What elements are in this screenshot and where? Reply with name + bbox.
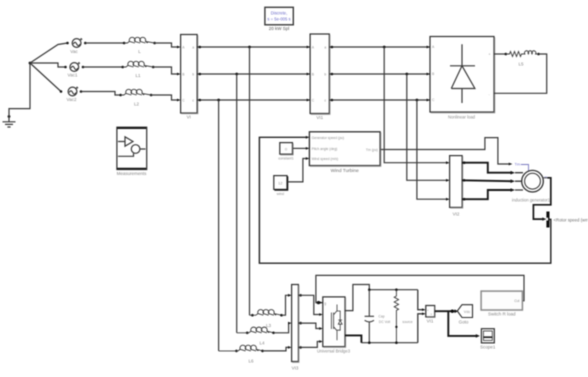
wire VM to Goto (bold) (435, 310, 455, 312)
wire L6 to VI3 c (263, 347, 289, 351)
node A tap (248, 46, 251, 49)
wire Vac1 to L1 (83, 66, 123, 68)
svg-text:constant1: constant1 (278, 157, 294, 161)
wire L2 to VI port C (151, 95, 177, 100)
svg-text:source: source (402, 320, 412, 324)
svg-text:c: c (324, 99, 326, 103)
wire node to Vac1 (30, 63, 66, 67)
svg-text:+: + (489, 53, 491, 57)
svg-text:Cut: Cut (514, 299, 519, 303)
svg-text:induction generator1: induction generator1 (512, 197, 551, 202)
goto tag Vdc (457, 305, 472, 325)
powergui block (265, 7, 293, 31)
svg-text:L2: L2 (134, 102, 140, 107)
node C tap right (416, 99, 419, 102)
measurement subsystem block (117, 127, 148, 176)
svg-text:L1: L1 (135, 73, 141, 78)
machine Tm stub (521, 165, 529, 171)
inductor L4 (237, 327, 275, 345)
wire RL loop back to rectifier (494, 54, 547, 93)
tap B down-right to VI2 (407, 74, 446, 180)
gate wire net (316, 275, 524, 302)
svg-text:b: b (192, 73, 194, 77)
wire Vac2 to L2 (81, 92, 121, 96)
wire ground to node (9, 63, 30, 117)
svg-text:<Rotor speed (wm)>: <Rotor speed (wm)> (554, 217, 588, 222)
capacitor C (365, 290, 391, 343)
svg-text:VI: VI (187, 115, 191, 120)
svg-text:-: - (489, 92, 490, 96)
svg-text:+: + (427, 308, 429, 312)
bus C: VI to VI1 (197, 99, 310, 101)
svg-text:Tm: Tm (515, 163, 520, 167)
svg-text:b: b (324, 73, 326, 77)
svg-text:g: g (324, 301, 326, 305)
wire node to Vac2 (30, 63, 61, 92)
resistor branch (394, 290, 412, 343)
node B tap right (405, 73, 408, 76)
bus A: VI to VI1 (197, 46, 310, 48)
svg-text:L3: L3 (266, 323, 272, 328)
svg-text:Vac: Vac (70, 49, 78, 54)
svg-text:L5: L5 (518, 62, 524, 67)
tap A down-right to VI2 (384, 47, 446, 163)
svg-text:Vac2: Vac2 (67, 97, 77, 102)
block VI3 (292, 285, 299, 371)
wire constant2 to turbine wind speed (288, 159, 306, 182)
right leg to VM (418, 290, 423, 343)
svg-text:Pitch angle (deg): Pitch angle (deg) (312, 147, 338, 151)
wire node to Vac (30, 43, 68, 63)
scope1 block (480, 329, 496, 350)
svg-text:Measurements: Measurements (117, 171, 148, 176)
block VI1 (three-phase VI measurement) (310, 34, 330, 120)
wire turbine Tm to machine (381, 138, 509, 164)
tap C down-right to VI2 (417, 100, 446, 199)
svg-text:a: a (192, 46, 194, 50)
wire L4 to VI3 b (274, 323, 289, 333)
switch load subsystem (gray) (481, 291, 522, 316)
wire to scope (bold) (448, 311, 476, 336)
IGBT symbol (331, 305, 342, 341)
svg-text:Wind Turbine: Wind Turbine (331, 168, 360, 174)
svg-text:VI3: VI3 (292, 366, 299, 371)
tap A down-left to L3 (249, 47, 251, 315)
constant2 block (12, wind speed) (274, 176, 288, 196)
svg-text:Vdc: Vdc (464, 310, 471, 314)
arrows into VI1 (307, 46, 311, 102)
voltage measurement block VI1 (426, 306, 435, 324)
svg-text:Cap: Cap (378, 315, 384, 319)
node A tap right (383, 46, 386, 49)
AC source Vac2 (60, 87, 83, 102)
DC- wire bridge to rail (bold) (345, 335, 361, 342)
svg-text:20 kW Spl: 20 kW Spl (269, 26, 290, 31)
svg-text:Scope1: Scope1 (480, 345, 496, 350)
AC source Vac1 (64, 62, 84, 78)
svg-text:Goto: Goto (459, 319, 469, 324)
arrows into rectifier (427, 46, 431, 102)
DC bottom rail (361, 342, 417, 344)
wire L to VI port A (155, 43, 178, 47)
bus C: VI1 to rectifier (329, 99, 430, 101)
svg-text:a: a (324, 46, 326, 50)
inductor L2 (119, 89, 152, 106)
DC+ wire bridge to cap (345, 285, 369, 311)
machine port stubs (515, 173, 523, 190)
wire constant1 to turbine (293, 147, 306, 149)
tap C down-left to L6 (218, 100, 220, 351)
wire L3 to VI3 a (282, 295, 289, 315)
svg-text:L4: L4 (259, 341, 265, 346)
rectifier block U1 (Nonlinear load) (430, 37, 495, 120)
wire VI3 a to bridge A (298, 295, 319, 314)
svg-text:VI1: VI1 (316, 115, 323, 120)
svg-text:wind: wind (277, 192, 284, 196)
arrow into VI B (177, 73, 181, 76)
inductor L (123, 37, 156, 54)
wire VI2 a to machine A (462, 163, 511, 173)
ground (3, 115, 16, 127)
svg-text:Tm (pu): Tm (pu) (366, 148, 378, 152)
svg-text:Switch R load: Switch R load (488, 311, 516, 316)
svg-text:Wind speed (m/s): Wind speed (m/s) (312, 157, 339, 161)
svg-text:VI1: VI1 (427, 318, 434, 323)
block VI (three-phase VI measurement) (181, 35, 198, 120)
arrow into VI C (177, 99, 181, 102)
wire VI3 b to bridge B (298, 323, 319, 328)
arrow into VI A (177, 46, 181, 49)
svg-text:L6: L6 (248, 359, 254, 364)
bus selector (546, 212, 549, 228)
svg-text:Discrete,: Discrete, (271, 11, 288, 16)
universal bridge3 block (317, 297, 351, 354)
bus B: VI1 to rectifier (329, 73, 430, 75)
wire VI3 c to bridge C (298, 342, 319, 348)
wind turbine block (309, 132, 380, 174)
inductor L6 (219, 345, 264, 363)
machine input wires (bold) (462, 163, 511, 200)
svg-text:Universal Bridge3: Universal Bridge3 (317, 349, 351, 354)
node C tap (217, 99, 220, 102)
svg-text:Generator speed (pu): Generator speed (pu) (312, 136, 344, 140)
svg-text:12: 12 (278, 181, 283, 186)
bus B: VI to VI1 (197, 73, 310, 75)
node A common (29, 62, 32, 65)
AC source Vac (66, 38, 86, 54)
svg-text:Nonlinear load: Nonlinear load (448, 114, 476, 119)
svg-text:Vac1: Vac1 (68, 73, 78, 78)
DC top rail (369, 289, 418, 291)
inductor L3 (250, 310, 283, 328)
svg-text:DC Volt: DC Volt (379, 320, 391, 324)
wire m to bus selector (543, 177, 548, 179)
wire L1 to VI port B (153, 67, 177, 74)
constant1 block (0) (278, 143, 294, 161)
wire Vac to L (85, 42, 124, 44)
asynchronous machine (induction generator) (512, 170, 551, 202)
svg-text:c: c (192, 99, 194, 103)
wire VI2 b to machine B (462, 179, 511, 182)
node B tap (235, 73, 238, 76)
bus A: VI1 to rectifier (329, 46, 430, 48)
feedback wire rotor speed to turbine (259, 137, 550, 263)
block VI2 (450, 156, 463, 217)
diode symbol (450, 44, 475, 103)
series RL branch L5 (494, 51, 540, 67)
wire VI2 c to machine C (462, 190, 511, 199)
svg-text:s = 5e-005 s: s = 5e-005 s (267, 16, 290, 21)
tap B down-left to L4 (236, 74, 238, 333)
inductor L1 (121, 61, 154, 78)
svg-text:VI2: VI2 (453, 212, 460, 217)
